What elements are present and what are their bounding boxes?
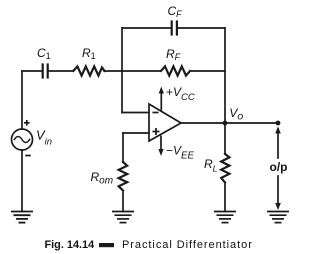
wire: input rail left segment to C1 [22,70,41,72]
ground (Rom) [112,212,134,223]
wire: CF top rail left [122,27,171,29]
wire: Rom to ground [122,191,124,212]
op-amp minus symbol [24,92,161,156]
svg-text:Rom: Rom [91,170,114,187]
wire: node A vertical (CF/RF junction down to inverting input) [121,28,123,113]
caption bar [99,243,114,247]
svg-text:Practical Differentiator: Practical Differentiator [122,239,253,251]
wire: output from op-amp to o/p node [181,122,278,124]
wire: R1 to node A [104,70,160,72]
ground (RL) [214,212,236,223]
capacitor C1 [43,65,48,78]
ground (o/p) [267,212,289,223]
wire: Vin source bottom to ground [21,150,23,212]
wire: o/p arrow lower segment [277,176,279,205]
op-amp U1 [149,104,181,141]
wire: RL vertical from output node [224,123,226,154]
wire: C1 to R1 [49,70,73,72]
svg-text:Fig. 14.14: Fig. 14.14 [45,239,95,251]
svg-text:RL: RL [204,157,218,174]
wire: RF to right vertical [191,70,225,72]
wire: CF top rail right [178,27,225,29]
svg-text:Vo: Vo [229,106,243,123]
wire: o/p arrow upper segment [277,129,279,158]
svg-text:RF: RF [166,47,181,62]
svg-text:CF: CF [168,4,183,19]
wire: +VCC supply line [160,92,162,111]
resistor R1 [73,66,104,75]
wire: inverting input stub [122,112,149,114]
wire: non-inverting down to Rom [122,133,124,162]
capacitor CF [172,22,177,35]
wire: -VEE supply line [160,136,162,152]
op-amp plus symbol [153,131,160,133]
wire: left vertical from input rail down to Vin source [21,71,23,129]
resistor RF [161,66,190,75]
ground (Vin) [11,212,33,223]
arrowhead o/p down [275,203,281,210]
svg-text:Vin: Vin [36,128,52,148]
node dot Vo [223,121,228,126]
svg-text:o/p: o/p [270,160,288,174]
wire: RL to ground [224,183,226,212]
svg-text:C1: C1 [37,46,51,61]
arrowhead o/p up [275,127,281,134]
svg-text:R1: R1 [82,46,96,61]
plus sign of Vin [24,122,30,124]
node dot output right [276,121,281,126]
sine symbol inside Vin [14,137,29,143]
arrowhead -VEE [158,149,163,156]
arrowhead +VCC [159,87,164,94]
svg-text:−VEE: −VEE [166,143,194,161]
source Vin circle [12,129,33,150]
resistor Rom [119,162,128,191]
minus sign of Vin [25,155,31,157]
wire: right vertical from CF corner down to output node [224,28,226,123]
wire: non-inverting input stub [123,132,149,134]
resistor RL [221,154,229,183]
svg-text:+VCC: +VCC [166,85,195,103]
